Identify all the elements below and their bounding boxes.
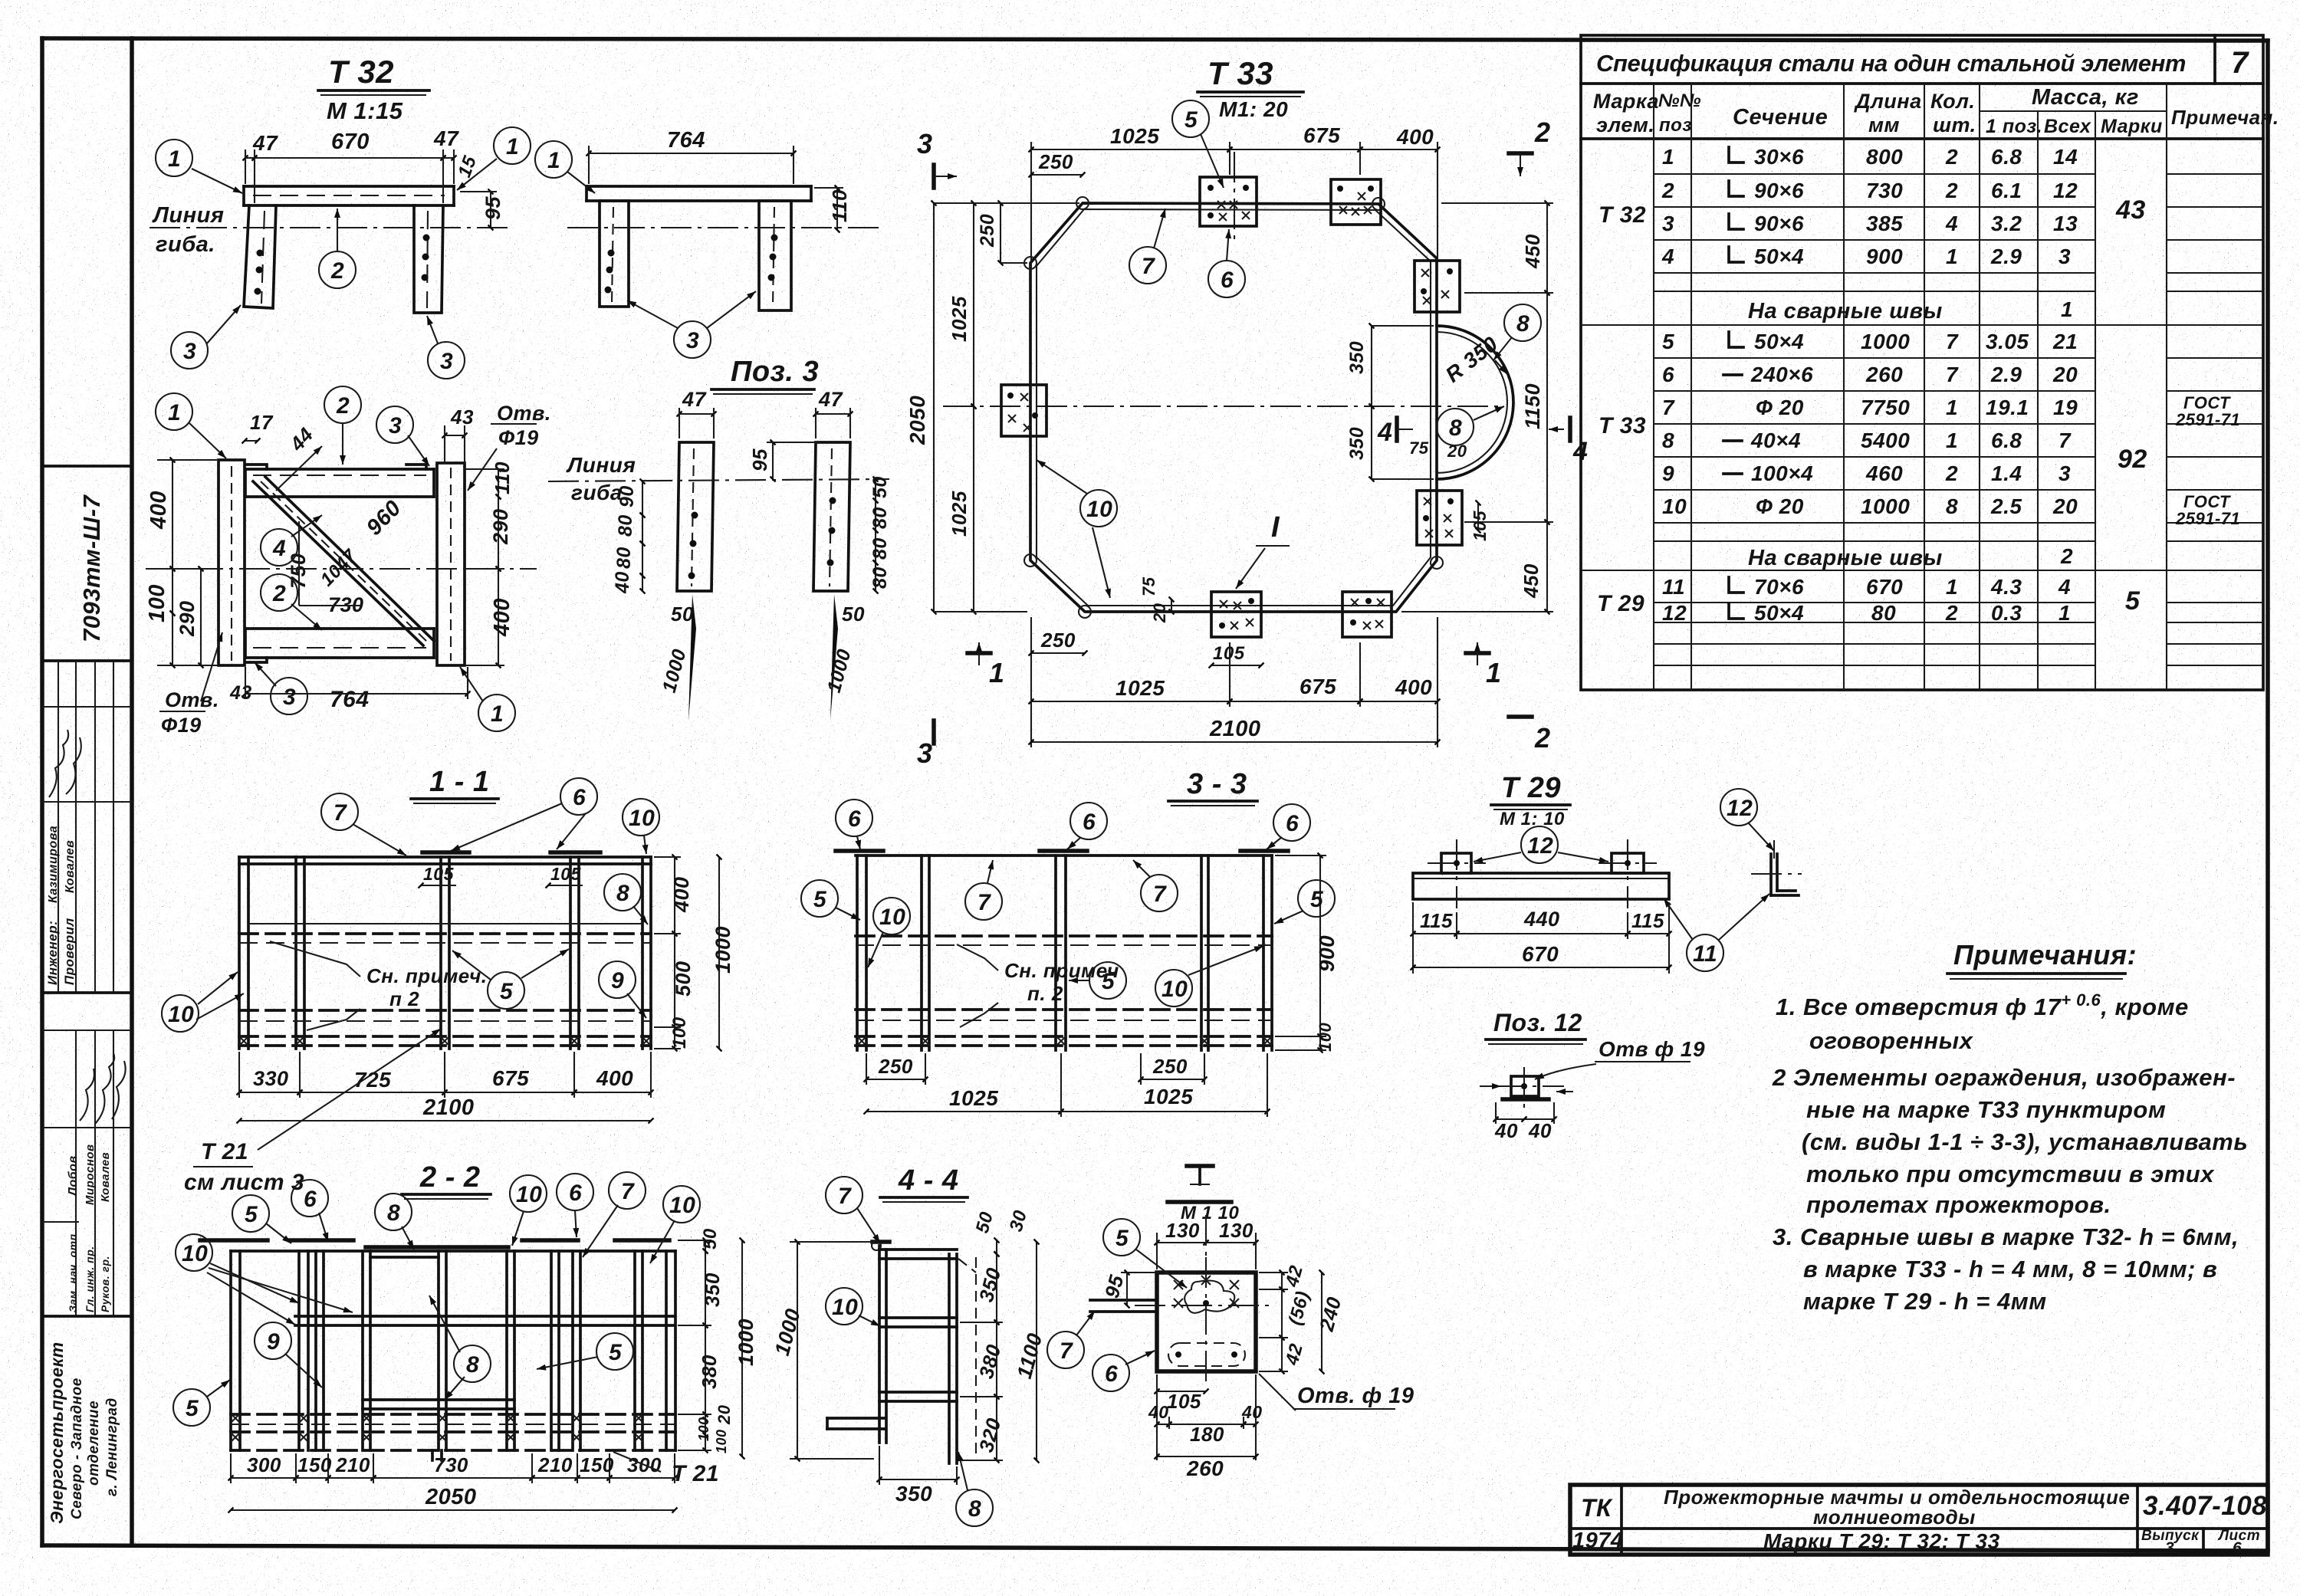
left outer dim 2050 (933, 203, 935, 612)
detail I centerlines (1205, 1257, 1207, 1387)
detail I bottom dims 105 (1157, 1391, 1206, 1392)
callout 5 s33 right (1298, 880, 1335, 917)
weld marks (857, 1036, 866, 1046)
4-4 outer 1100 (1036, 1242, 1037, 1460)
1-1 bottom dims 330 725 675 400 (239, 1092, 300, 1093)
T33 top dim row 1025 675 400 (1031, 149, 1230, 150)
callout 3 right leg (428, 342, 465, 379)
post (294, 857, 297, 1049)
callout 7 s11 (321, 793, 358, 830)
callout 10 s44 (826, 1288, 863, 1325)
3-3 bottom dims 1025 1025 (866, 1111, 1061, 1112)
2-2 right dims (705, 1240, 706, 1251)
right dim chain 450 1150 450 (1546, 203, 1548, 293)
3-3 bottom dims 250 250 (866, 1079, 925, 1080)
section marker 2 bottom right (1509, 717, 1551, 754)
1-1 right outer dim 1000 (718, 857, 720, 1049)
4-4 top fitting (872, 1240, 889, 1244)
callout 3 plan top right (376, 406, 413, 443)
section marker 4 right (1549, 418, 1588, 466)
T32 front view A top channel (244, 186, 454, 205)
1-1 rails dashed (248, 923, 642, 924)
2-2 top line (231, 1250, 675, 1253)
3-3 right dims 900 100 (1319, 855, 1321, 1036)
post (505, 1251, 508, 1450)
plate P4 right lower (1417, 491, 1462, 545)
callout 6 s11 (560, 778, 597, 815)
detail I slot dashed (1168, 1343, 1245, 1366)
post (229, 1251, 232, 1450)
callout 7 det (1047, 1332, 1084, 1368)
dim 95 (490, 192, 491, 228)
detail I symbol (1187, 1164, 1213, 1168)
callout 1 view A left (156, 140, 192, 176)
3-3 top tabs (836, 849, 883, 853)
callout 6 s22 top b (557, 1174, 593, 1210)
rung (879, 1316, 957, 1319)
T32 view A right leg poz.3 (414, 205, 443, 313)
callout 2 crossbar (319, 251, 356, 288)
detail I top dims 130 130 (1157, 1242, 1206, 1243)
detail I bolts (1174, 1280, 1183, 1289)
section marker 2 top right (1509, 117, 1551, 176)
callout 5 s22 right (596, 1333, 633, 1370)
DETAIL I (1047, 1166, 1414, 1480)
T32 plan diagonal brace poz 4 (253, 477, 434, 645)
dim 110 view B (836, 188, 838, 230)
callout 2 plan bottom (261, 574, 297, 611)
callout 5 T33 (1172, 100, 1209, 137)
post (1054, 855, 1057, 1050)
callout 10 T33 (1080, 490, 1117, 527)
2-2 top tabs (200, 1238, 268, 1243)
title block frame (1570, 1485, 2268, 1555)
post (571, 1251, 574, 1450)
callout 1 plan top left (156, 393, 192, 430)
Poz.3 right dim chain 50 80 80 80 (875, 479, 876, 501)
plate P3 right upper (1414, 261, 1460, 312)
detail I total 260 (1157, 1456, 1256, 1457)
2-2 bottom dashed rails (231, 1413, 675, 1416)
callout 2 plan top (324, 386, 361, 423)
2-2 mid band (295, 1315, 675, 1318)
callout 8 s22 top (375, 1194, 412, 1230)
2-2 inner bay frame (370, 1256, 439, 1259)
left dim 250 vert (1000, 203, 1001, 263)
dim 47 670 47 (245, 157, 255, 159)
left inner dim chain 1025 1025 (973, 203, 974, 406)
bend circles (1076, 197, 1089, 209)
callout 9 s11 (599, 961, 636, 998)
1-1 top rail (239, 855, 651, 859)
callout 10 s22 top a (510, 1175, 547, 1212)
4-4 right chain 350 380 320 (996, 1254, 997, 1322)
T29 beam poz 11 (1413, 873, 1669, 899)
detail I dim 95 left (1126, 1273, 1128, 1305)
T29 angle bracket right (1751, 840, 1802, 895)
SECTION 1-1 (162, 766, 734, 1195)
plate P5 left mid (1001, 385, 1046, 436)
callout 6 s33 a (836, 800, 872, 836)
callout 1 plan bottom right (478, 695, 515, 731)
post (856, 855, 859, 1050)
plate P1 top (1200, 177, 1257, 226)
detail I bottom dims 40 180 40 (1157, 1424, 1169, 1425)
detail I underline (1168, 1200, 1231, 1204)
2-2 lower crossbar (363, 1398, 514, 1401)
3-3 rails dashed (856, 934, 1272, 938)
callout 8 arc (1504, 304, 1541, 341)
Poz.3 break spikes 50 1000 (688, 594, 696, 721)
top dim 250 (1031, 174, 1083, 176)
section marker 1 bottom right (1466, 642, 1502, 688)
T32 plan right plate (437, 463, 465, 665)
T32 plan view left plate (219, 460, 245, 665)
detail I left bar poz 7 (1090, 1299, 1157, 1302)
sidebar stamp number cell (42, 465, 132, 468)
callout 10 s11 left (162, 995, 199, 1032)
1-1 right dim chain 400 500 100 (674, 857, 675, 934)
section marker 4 left (1377, 418, 1413, 447)
4-4 bottom left bar (827, 1417, 885, 1420)
SECTION 3-3 (801, 768, 1339, 1117)
SIDEBAR (42, 466, 132, 1524)
post (633, 1251, 636, 1450)
post (641, 857, 644, 1049)
T32 plan top channel poz 1 (245, 465, 434, 497)
callout 10 s33 mid (1155, 970, 1192, 1007)
bottom total 2100 (1031, 741, 1437, 743)
spec table data (1597, 145, 2240, 625)
post (437, 1251, 440, 1450)
callout 6 s22 top (291, 1180, 328, 1217)
Poz.12 dims 40 40 (1496, 1118, 1524, 1120)
SPEC TABLE (1581, 35, 2279, 690)
callout 5 s22 top (232, 1195, 269, 1232)
T33 octagon inner line (1037, 209, 1431, 606)
1-1 top tabs poz 6 (422, 850, 469, 855)
callout 7 s33 b (1141, 875, 1178, 911)
dim 764 view B (589, 153, 793, 154)
arc dims 350 350 (1371, 326, 1372, 406)
4-4 left dim 1000 (797, 1242, 798, 1459)
1-1 total 2100 (239, 1120, 651, 1121)
callout 10 s22 top c (663, 1186, 700, 1223)
post (314, 1251, 317, 1450)
plan left dims 400 100 (172, 460, 173, 569)
bend centerline Linija giba (149, 227, 512, 228)
Poz.3 dim 95 (772, 442, 774, 479)
post (920, 855, 923, 1050)
callout 3 view B legs (674, 321, 711, 358)
callout 9 s22 (255, 1322, 291, 1359)
callout 8 s11 (604, 874, 641, 911)
section marker 3 top (917, 128, 957, 188)
detail I plate (1157, 1273, 1256, 1371)
sidebar signature table 1 grid (42, 661, 132, 1030)
T29 (1413, 772, 1802, 1142)
callout 8 s44 (956, 1489, 993, 1526)
semicircle arc R350 poz 8 (1437, 326, 1513, 479)
callout 8 arc 2 (1437, 409, 1474, 445)
Poz.3 left plate (677, 442, 714, 591)
detail I outer 240 (1321, 1273, 1322, 1371)
T29 total 670 (1413, 967, 1669, 968)
SECTION 4-4 (770, 1164, 1047, 1526)
callout 4 diagonal (261, 529, 297, 566)
plate P6 bottom (1211, 592, 1261, 637)
post (297, 1251, 301, 1450)
callout 12 T29 (1521, 826, 1558, 863)
signature squiggles 2 (80, 1069, 94, 1121)
centerlines T33 (943, 406, 1503, 407)
callout 8 s22 mid (454, 1345, 491, 1382)
callout 11 T29 (1687, 934, 1723, 971)
bottom dim 250 (1031, 652, 1085, 654)
T32 view A left leg poz.3 (244, 205, 276, 308)
T29 block right poz 12 (1598, 839, 1657, 908)
callout 6 s33 c (1273, 804, 1310, 841)
detail I right chain 42 156 42 (1281, 1273, 1283, 1289)
callout 5 s11 (488, 972, 524, 1009)
plan centerline (146, 568, 537, 570)
bottom dim row 1025 675 400 (1031, 701, 1230, 702)
T29 dims 115 440 115 (1413, 933, 1457, 934)
post (569, 857, 572, 1049)
post (361, 1251, 364, 1450)
Poz.3 bend line (548, 479, 889, 481)
rung (879, 1391, 957, 1394)
callout 10 s22 left (176, 1234, 212, 1271)
TITLE BLOCK (1570, 1485, 2268, 1557)
callout 1 view A right (494, 127, 531, 164)
T32 front view B top channel (586, 186, 811, 201)
weld x marks bottom (239, 1036, 248, 1046)
plan right dims 110 290 400 (498, 469, 499, 497)
callout 3 left leg (171, 332, 208, 369)
callout 6 s33 b (1070, 803, 1107, 839)
NOTES (1772, 939, 2248, 1315)
Poz.3 left dim chain 90 80 80 40 (642, 481, 643, 515)
callout 7 T33 (1129, 247, 1166, 284)
2-2 total 2050 (231, 1509, 675, 1511)
callout 6 T33 (1208, 261, 1245, 297)
post (550, 1251, 553, 1450)
2-2 weld marks (231, 1433, 240, 1442)
callout 7 s44 (826, 1177, 863, 1213)
callout 7 s22 top (609, 1172, 646, 1209)
rung (879, 1248, 957, 1251)
T32 view B left leg (600, 201, 629, 307)
post (665, 1251, 668, 1450)
2-2 right outer 1000 (741, 1240, 743, 1456)
4-4 hidden dashed post (975, 1257, 977, 1460)
T33 GROUP (905, 55, 1588, 769)
callout 7 s33 a (965, 883, 1002, 920)
T21 column stub (431, 1450, 434, 1460)
T32 plan bottom channel poz 2 (245, 629, 434, 662)
plate P2 top (1331, 179, 1381, 225)
callout 6 det (1092, 1355, 1129, 1391)
T32 view B right leg (759, 201, 791, 310)
plate P7 bottom (1342, 592, 1391, 637)
4-4 rails (878, 1246, 881, 1443)
spec table frame (1581, 35, 2263, 690)
callout 5 s33 left (801, 880, 838, 917)
section marker 3 bottom (917, 721, 934, 769)
callout 10 s11 (623, 799, 659, 836)
post (1262, 855, 1265, 1050)
T29 block left poz 12 (1428, 839, 1486, 908)
post (238, 857, 241, 1049)
signature squiggles 1 (49, 730, 68, 797)
T33 octagon outer rod poz 7 (1030, 203, 1437, 612)
T32 GROUP (145, 54, 891, 737)
4-4 bottom dim 350 (879, 1479, 957, 1480)
callout 5 det (1103, 1219, 1140, 1256)
sidebar signature table 2 grid (42, 1030, 132, 1316)
centerline view B (567, 227, 882, 228)
Poz.12 part (1480, 1067, 1573, 1108)
section marker 1 bottom left (968, 642, 1005, 688)
spec table header text (1593, 46, 2279, 137)
callout 3 plan bottom (271, 678, 307, 714)
SECTION 2-2 (173, 1161, 757, 1510)
callout 5 s33 mid (1089, 962, 1126, 999)
callout 10 s33 left (873, 898, 910, 934)
callout 1 view B (535, 141, 572, 178)
callout 12 bracket (1720, 789, 1757, 826)
detail I weld seam curve (1184, 1281, 1234, 1313)
post (1200, 855, 1203, 1050)
3-3 top rail (856, 854, 1272, 857)
post (439, 857, 442, 1049)
2-2 bottom dim chain (231, 1477, 296, 1479)
callout 5 s22 left (173, 1389, 210, 1426)
Poz.3 dims 47 47 (679, 413, 714, 415)
plan dim 290 (200, 569, 202, 665)
Poz.3 right plate (813, 442, 850, 591)
